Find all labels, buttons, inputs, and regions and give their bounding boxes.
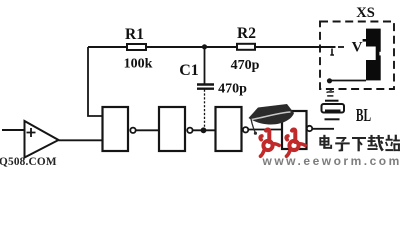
svg-text:XS: XS xyxy=(356,5,375,21)
wire: jack sleeve to node C xyxy=(330,80,367,82)
svg-text:470p: 470p xyxy=(218,82,247,97)
svg-text:C1: C1 xyxy=(179,62,199,79)
watermark CJK glyph xia xyxy=(352,137,366,151)
watermark red bug glyph 1 xyxy=(260,130,279,157)
plug tip gap dash xyxy=(338,46,344,48)
resistor R1 xyxy=(127,44,146,50)
resistor R2 xyxy=(237,44,255,50)
svg-text:BL: BL xyxy=(356,105,371,125)
wire: gate D4 output stub toward BL xyxy=(312,128,334,130)
wire: gate D3 output to gate D4 input xyxy=(248,129,282,131)
node C (sleeve junction dot) xyxy=(327,78,332,83)
wire: top rail, left vertical feedback segment down to gate D1 input xyxy=(88,47,103,116)
op-amp U1 (comparator) xyxy=(25,121,59,158)
wire: top rail left segment to R1 xyxy=(88,46,127,48)
inverter gate D3 xyxy=(216,107,249,151)
plus sign of op-amp U1 xyxy=(27,128,36,137)
watermark CJK glyph zi xyxy=(335,137,350,151)
node A (R1/R2/C1 junction) xyxy=(202,44,207,49)
svg-text:100k: 100k xyxy=(124,57,153,72)
wire: comparator non-inverting input lead xyxy=(2,129,25,131)
inverter gate D1 xyxy=(103,107,136,151)
watermark red bug glyph 2 xyxy=(286,130,305,157)
wire: gate D1 output to gate D2 input xyxy=(136,129,159,131)
jack body of socket XS xyxy=(363,29,381,81)
watermark CJK glyph dian (electron) xyxy=(319,135,332,149)
connector XS dashed enclosure xyxy=(320,22,394,90)
wire: gate D2 output to gate D3 input xyxy=(193,129,216,131)
node B (C1 return junction) xyxy=(201,127,207,133)
buzzer BL (piezo sounder) xyxy=(322,101,345,120)
svg-text:R1: R1 xyxy=(125,26,144,43)
wire: U1 output to gate D1 input xyxy=(59,139,103,141)
watermark CJK glyph zhan (station) xyxy=(385,135,400,151)
capacitor C1 xyxy=(197,85,214,89)
wire: node A to R2 xyxy=(205,46,238,48)
inverter gate D4 xyxy=(282,111,312,149)
watermark graduation cap logo xyxy=(249,104,295,135)
wire: node A down to C1 top plate xyxy=(204,47,206,84)
plug tip hook symbol xyxy=(330,49,334,56)
svg-text:V: V xyxy=(352,40,363,56)
wire: node C link marks toward buzzer xyxy=(327,90,335,96)
svg-text:Q508.COM: Q508.COM xyxy=(0,156,57,168)
wire: R2 to socket XS plug xyxy=(255,46,336,48)
wire: R1 to node A xyxy=(146,46,205,48)
watermark CJK glyph zai xyxy=(367,135,384,152)
inverter gate D2 xyxy=(159,107,193,151)
wire: C1 bottom plate down to node B (faint dotted in scan) xyxy=(204,90,206,131)
svg-text:R2: R2 xyxy=(237,25,256,42)
svg-text:470p: 470p xyxy=(231,58,260,73)
svg-text:www.eeworm.com: www.eeworm.com xyxy=(262,154,400,168)
